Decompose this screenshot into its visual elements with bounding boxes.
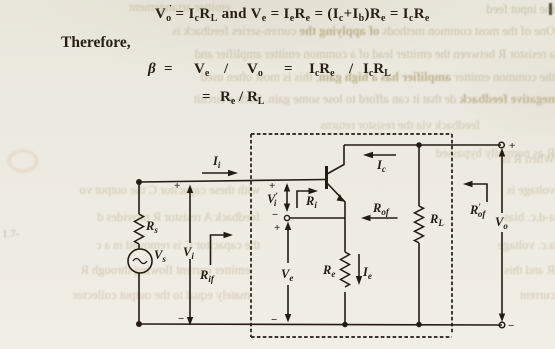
svg-text:RL: RL — [429, 212, 444, 228]
svg-text:Ie: Ie — [362, 265, 372, 281]
svg-text:Ve: Ve — [281, 267, 293, 283]
svg-text:+: + — [269, 180, 275, 192]
svg-text:+: + — [174, 180, 180, 192]
svg-text:−: − — [508, 320, 514, 332]
svg-text:Rif: Rif — [199, 268, 215, 284]
svg-text:Re: Re — [322, 263, 335, 279]
svg-text:+: + — [509, 140, 515, 152]
svg-text:Vo: Vo — [495, 215, 508, 231]
svg-text:Ri: Ri — [305, 194, 317, 210]
svg-text:V′i: V′i — [267, 191, 278, 208]
svg-text:+: + — [274, 222, 280, 234]
svg-text:Vs: Vs — [154, 248, 166, 264]
svg-text:Vi: Vi — [183, 245, 194, 261]
svg-text:Rs: Rs — [145, 219, 158, 235]
svg-text:Ic: Ic — [376, 158, 386, 174]
svg-text:Ii: Ii — [212, 154, 221, 170]
svg-text:Rof: Rof — [372, 201, 390, 217]
svg-text:−: − — [272, 209, 278, 221]
svg-text:−: − — [178, 313, 184, 325]
svg-text:R′of: R′of — [469, 202, 486, 219]
svg-text:−: − — [271, 314, 277, 326]
